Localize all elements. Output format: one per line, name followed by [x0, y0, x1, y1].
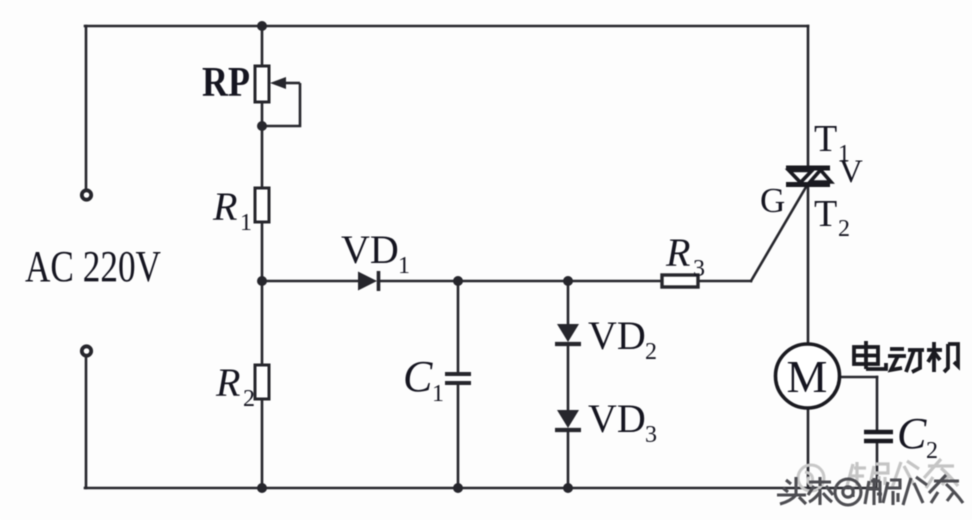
- node: top bus / RP branch junction: [257, 21, 267, 31]
- wire: R1 bottom to mid node: [261, 222, 264, 282]
- wire: node to VD2: [567, 281, 570, 324]
- svg-text:AC 220V: AC 220V: [25, 242, 161, 291]
- wire: VD3 to bottom bus: [567, 430, 570, 488]
- node: VD2 branch top junction: [563, 276, 573, 286]
- wire: C1 bottom lead: [457, 384, 460, 488]
- svg-text:T: T: [814, 118, 837, 160]
- svg-text:1: 1: [240, 210, 252, 236]
- node: RP wiper junction: [257, 121, 267, 131]
- svg-text:VD: VD: [588, 396, 646, 441]
- resistor R2: [255, 365, 269, 399]
- triac V: [786, 168, 831, 185]
- diode VD2: [557, 324, 579, 342]
- svg-text:3: 3: [645, 422, 657, 448]
- node: mid junction at R1/R2/VD1: [257, 276, 267, 286]
- svg-text:3: 3: [693, 256, 705, 282]
- motor M circle: [776, 344, 840, 408]
- svg-text:R: R: [665, 230, 690, 275]
- svg-text:VD: VD: [341, 227, 399, 272]
- wire: left upper vertical to top terminal: [85, 26, 88, 190]
- node: C1 bottom junction: [453, 483, 463, 493]
- svg-text:C: C: [403, 352, 433, 401]
- capacitor C1: [445, 374, 471, 383]
- potentiometer RP body: [255, 66, 269, 102]
- svg-text:2: 2: [243, 386, 255, 412]
- wire: C2 top lead: [876, 377, 879, 430]
- wire: R2 bottom to bottom bus: [261, 399, 264, 488]
- node: bottom bus left branch: [257, 483, 267, 493]
- potentiometer RP wiper arrow: [266, 83, 300, 126]
- resistor R1: [255, 188, 269, 222]
- node: VD2 branch bottom junction: [563, 483, 573, 493]
- svg-text:G: G: [760, 181, 785, 220]
- svg-text:C: C: [897, 409, 927, 458]
- svg-text:M: M: [787, 351, 828, 402]
- svg-text:2: 2: [838, 216, 850, 242]
- watermark light text: [847, 459, 958, 488]
- svg-text:2: 2: [645, 339, 657, 365]
- wire: left lower vertical from bottom terminal: [85, 356, 88, 488]
- svg-text:R: R: [212, 184, 237, 229]
- terminal: AC bottom: [82, 346, 91, 355]
- svg-text:RP: RP: [202, 60, 250, 106]
- wire: C2 bottom lead: [876, 442, 879, 488]
- watermark dark text 头条@维修人家: [777, 475, 963, 505]
- wire: C1 top lead: [457, 281, 460, 372]
- wire: motor to C2 horizontal: [839, 376, 877, 379]
- svg-text:R: R: [215, 360, 240, 405]
- wire: right vertical from top bus to triac T1: [807, 26, 810, 166]
- svg-text:1: 1: [398, 253, 410, 279]
- watermark light logo swirl: [798, 465, 824, 491]
- wire: bottom bus: [85, 487, 877, 490]
- wire: top bus: [85, 25, 808, 28]
- wire: RP bottom to R1 top: [261, 102, 264, 188]
- wire: VD1 cathode to R3: [379, 280, 662, 283]
- wire: triac T2 to motor: [807, 185, 810, 345]
- wire: VD2 to VD3: [567, 344, 570, 410]
- resistor R3: [662, 275, 698, 287]
- node: C1 top junction: [453, 276, 463, 286]
- diode VD1: [358, 272, 377, 291]
- terminal: AC top: [82, 190, 91, 199]
- svg-text:2: 2: [926, 438, 938, 464]
- wire: left branch top to RP: [261, 26, 264, 66]
- svg-text:T: T: [814, 193, 837, 235]
- svg-text:V: V: [839, 154, 863, 190]
- wire: mid node to VD1 anode: [262, 280, 358, 283]
- wire: gate diagonal to triac G: [751, 187, 806, 281]
- label motor Chinese 电动机 (drawn strokes): [854, 341, 958, 372]
- wire: R3 right lead: [698, 280, 751, 283]
- svg-text:VD: VD: [588, 313, 646, 358]
- wire: motor bottom lead: [807, 408, 810, 488]
- svg-text:1: 1: [432, 381, 444, 407]
- diode VD3: [557, 410, 579, 428]
- wire: mid node to R2 top: [261, 281, 264, 365]
- capacitor C2: [864, 432, 893, 441]
